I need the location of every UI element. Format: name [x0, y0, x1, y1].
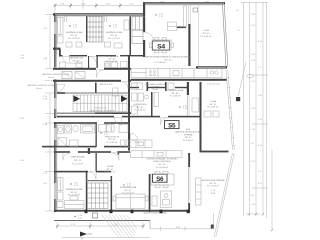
- S5 kitchen counters: [121, 140, 153, 148]
- S4 dining chairs + misc: [131, 5, 222, 203]
- svg-text:P= 4.68 m²: P= 4.68 m²: [208, 106, 219, 109]
- svg-text:NP: 02 P= 12.73 m²: NP: 02 P= 12.73 m²: [92, 112, 112, 115]
- stairs: [73, 95, 127, 112]
- svg-text:VANJSKE JEDINICE KLIME: VANJSKE JEDINICE KLIME: [42, 73, 70, 76]
- kitchen end wall right: [196, 66, 227, 68]
- hatched wardrobe bedroom1/2: [87, 17, 103, 43]
- interior wall y=55.5: [53, 48, 61, 50]
- svg-text:SPAVAĆA SOBA: SPAVAĆA SOBA: [106, 31, 123, 34]
- svg-text:NP: 41: NP: 41: [71, 192, 78, 194]
- wall betw bed2/right room: [130, 16, 132, 55]
- stair hall partition: [95, 83, 97, 93]
- svg-text:P= 4.60 m²: P= 4.60 m²: [107, 60, 118, 63]
- svg-text:P= 4.68 m²: P= 4.68 m²: [170, 95, 181, 98]
- bottom wall: [54, 210, 190, 212]
- svg-text:NP: 41: NP: 41: [73, 60, 80, 62]
- terrain hatch: [102, 215, 137, 238]
- bedroom divider x=86: [86, 171, 88, 212]
- svg-text:NP: 41: NP: 41: [111, 35, 118, 37]
- svg-text:P= 4.49 m²: P= 4.49 m²: [135, 109, 146, 112]
- svg-text:NP: 41: NP: 41: [210, 104, 217, 106]
- svg-text:S5: S5: [168, 122, 176, 129]
- svg-text:SPREMA: SPREMA: [184, 133, 193, 136]
- svg-text:Tercol: Tercol: [36, 87, 42, 90]
- svg-text:P= 11.63 m²: P= 11.63 m²: [207, 185, 219, 188]
- svg-text:VANJSKE JEDINICE KLIME: VANJSKE JEDINICE KLIME: [27, 84, 55, 87]
- svg-text:NP: 41: NP: 41: [159, 164, 166, 166]
- windows in west wall: [54, 22, 56, 199]
- inner face lines: [57, 5, 223, 210]
- east wall S4/LODJA: [188, 24, 190, 66]
- svg-text:NP: 40: NP: 40: [165, 59, 172, 61]
- living west opening: [118, 151, 120, 155]
- wall x=200: [200, 82, 202, 152]
- svg-text:NP: 41: NP: 41: [109, 139, 116, 141]
- middle bedroom wardrobe: [154, 93, 159, 107]
- S5 utility walls: [147, 82, 149, 91]
- svg-text:NP: 41: NP: 41: [125, 190, 132, 192]
- svg-text:NATKRIVENA TERASA UZ DNEVNI BO: NATKRIVENA TERASA UZ DNEVNI BORAVAK: [145, 56, 192, 59]
- svg-text:NATKRIVENA TERASA: NATKRIVENA TERASA: [201, 179, 225, 182]
- bedroom2/living divider x=149: [149, 174, 151, 212]
- north wall left unit: [53, 13, 145, 15]
- corridor bathroom fixtures: [132, 93, 149, 114]
- svg-text:P= 4.66 m²: P= 4.66 m²: [201, 35, 212, 38]
- bedroom divider x=111: [111, 176, 113, 212]
- wall above wardrobe: [86, 180, 111, 181]
- svg-text:KUPAONICA: KUPAONICA: [134, 103, 147, 106]
- svg-text:PREDSOBLJE: PREDSOBLJE: [105, 136, 120, 138]
- east slanted outer wall: [223, 5, 228, 68]
- kitchen counter S4: [131, 69, 222, 78]
- svg-text:GARDEROBA: GARDEROBA: [69, 57, 84, 60]
- wall y=146: [42, 146, 56, 148]
- svg-text:GARDEROBA: GARDEROBA: [71, 155, 86, 158]
- svg-text:SOBA: SOBA: [107, 165, 114, 168]
- hatched wardrobe bottom: [87, 183, 108, 209]
- bathroom divider: [96, 122, 97, 147]
- lower bathroom N wall: [54, 122, 96, 124]
- svg-text:NATKRIVENA TERASA: NATKRIVENA TERASA: [143, 212, 167, 215]
- svg-text:1.93 0.90 2.86: 1.93 0.90 2.86: [207, 84, 221, 86]
- right room wardrobe hatched: [132, 17, 143, 44]
- bottom-left unit furniture: [57, 178, 148, 209]
- wall betw bed1/bed2 (hatch wardrobe edge): [86, 16, 87, 42]
- wall y=170.8: [54, 171, 88, 173]
- svg-text:S6: S6: [156, 176, 164, 183]
- svg-text:VANJSKA JEDINICA KLIME: VANJSKA JEDINICA KLIME: [175, 131, 202, 134]
- main south wall upper apartment: [53, 80, 121, 82]
- dividing wall left unit / S4: [143, 2, 145, 32]
- vertical divider garderoba: [88, 56, 89, 68]
- svg-text:NP: 41: NP: 41: [107, 169, 114, 171]
- wall y=151.3: [54, 151, 70, 153]
- svg-text:NP: 41: NP: 41: [185, 137, 192, 139]
- room labels: [66, 29, 225, 215]
- svg-text:P= 24.49 m²: P= 24.49 m²: [156, 166, 168, 169]
- svg-text:P= 12.32 m²: P= 12.32 m²: [68, 37, 80, 40]
- door arcs: [57, 56, 168, 179]
- stars: [69, 13, 182, 219]
- S5 text block: [175, 131, 202, 142]
- corridor east wall: [128, 56, 130, 151]
- svg-text:NP: 41: NP: 41: [71, 35, 78, 37]
- svg-text:Tercol: Tercol: [152, 88, 158, 91]
- AC units on wall: [62, 72, 72, 79]
- bottom dimension line: [57, 213, 214, 238]
- svg-text:NP: 41: NP: 41: [74, 160, 81, 162]
- S5 utility boxes: [132, 83, 143, 89]
- svg-text:NP: 41: NP: 41: [172, 93, 179, 95]
- top wall of terasa (right): [200, 151, 229, 153]
- north wall S4: [143, 2, 225, 4]
- svg-text:P= 3.99 m²: P= 3.99 m²: [155, 61, 166, 64]
- unit labels: [153, 41, 170, 50]
- wall y=115.8 right: [131, 116, 160, 118]
- bottom railing: [54, 220, 150, 222]
- svg-text:ZAJEDNIČKO STUBIŠTE: ZAJEDNIČKO STUBIŠTE: [89, 109, 115, 112]
- svg-text:NP: 41: NP: 41: [210, 183, 217, 185]
- stair area walls: [57, 92, 65, 94]
- svg-text:P= 4.23 m²: P= 4.23 m²: [72, 163, 83, 166]
- svg-text:BLAGOVAONICA: BLAGOVAONICA: [153, 160, 171, 163]
- svg-text:KUPAONICA: KUPAONICA: [106, 55, 119, 58]
- svg-text:P= 11.21 m²: P= 11.21 m²: [108, 37, 120, 40]
- west wall: [54, 14, 56, 68]
- svg-text:P= 3.10 m²: P= 3.10 m²: [71, 62, 82, 65]
- svg-text:DNEVNI BORAVAK, KUHINJA I: DNEVNI BORAVAK, KUHINJA I: [147, 157, 178, 160]
- entry nook wall S4: [177, 27, 186, 29]
- garderoba/kupaonica fixtures: [60, 62, 66, 68]
- east living wall: [188, 153, 190, 167]
- svg-text:NP: 41: NP: 41: [137, 107, 144, 109]
- svg-text:Tercol: Tercol: [48, 76, 54, 79]
- svg-text:S4: S4: [157, 43, 165, 50]
- svg-text:VANJSKE JED.: VANJSKE JED.: [99, 83, 113, 86]
- svg-text:±0,00: ±0,00: [122, 112, 128, 114]
- svg-text:LOĐA: LOĐA: [210, 100, 216, 103]
- svg-text:LOĐA: LOĐA: [203, 29, 209, 32]
- svg-text:P= 6.80 m²: P= 6.80 m²: [105, 171, 116, 174]
- svg-text:NP: 40: NP: 40: [203, 33, 210, 35]
- bottom wall posts: [85, 210, 190, 214]
- svg-text:SPAVAĆA SOBA: SPAVAĆA SOBA: [66, 31, 83, 34]
- east bedroom wall: [187, 82, 189, 95]
- svg-text:P= 3.80 m²: P= 3.80 m²: [107, 141, 118, 144]
- svg-text:P= 4.49 m²: P= 4.49 m²: [183, 139, 194, 142]
- corridor wall x=151: [151, 92, 153, 116]
- lower bathroom fixtures: [58, 72, 199, 158]
- svg-text:SPAVAĆA SOBA: SPAVAĆA SOBA: [120, 186, 137, 189]
- south wall of bath block: [53, 68, 96, 70]
- living S6 furniture: [151, 172, 201, 208]
- svg-text:SPAVAĆA SOBA: SPAVAĆA SOBA: [66, 188, 83, 191]
